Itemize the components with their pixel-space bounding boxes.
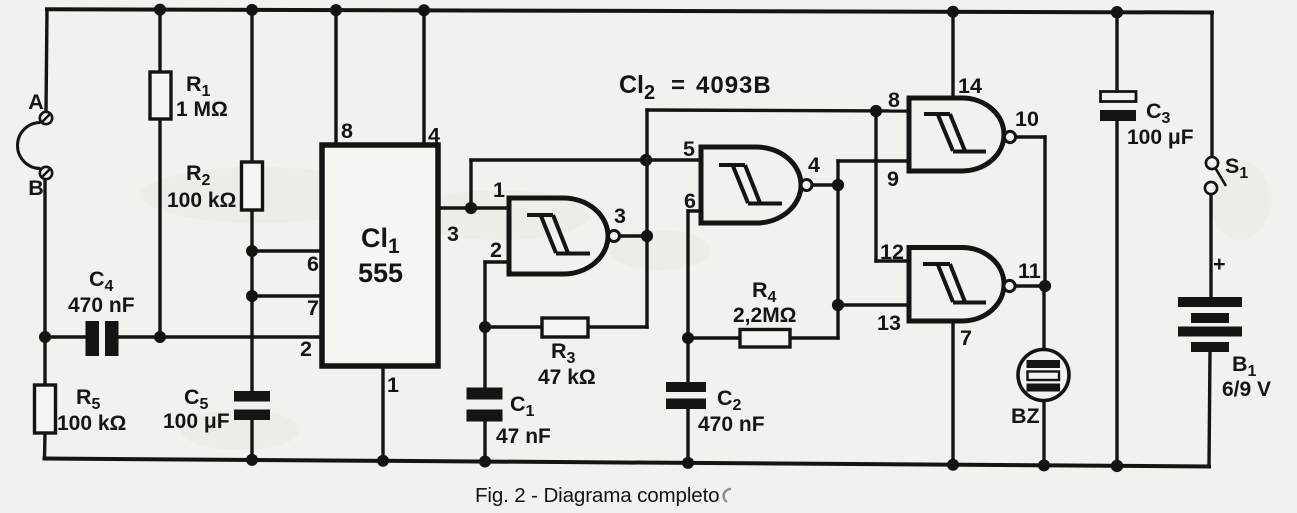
node output 11 (1039, 280, 1051, 292)
wire C2 bottom to rail (686, 409, 689, 463)
wire C3 column top (1115, 12, 1118, 91)
svg-text:14: 14 (958, 74, 982, 98)
gate CI2-c (pins 8,9,10) (909, 98, 1016, 171)
wire output10 drop to node 11 (1043, 137, 1046, 286)
wire battery to rail (1209, 352, 1210, 467)
svg-text:12: 12 (880, 240, 904, 264)
wire column x876 to gate4 input 12 (874, 111, 877, 261)
wire top rail (47, 9, 1212, 12)
wire gate3 input 9 (838, 159, 909, 162)
svg-text:11: 11 (1018, 259, 1041, 283)
capacitor C5 (234, 391, 270, 420)
svg-text:1: 1 (387, 373, 399, 397)
node C4 left (39, 331, 51, 343)
svg-text:7: 7 (960, 326, 972, 350)
resistor R3 (542, 318, 588, 337)
node input13 / R4 (832, 299, 844, 311)
resistor R2 (242, 162, 263, 210)
node input8 wire (870, 105, 882, 117)
wire sensor loop arc A-B (18, 123, 41, 169)
wire input6 column down to rail (686, 211, 689, 382)
svg-text:1 MΩ: 1 MΩ (176, 98, 228, 121)
node gate2 output 4 (832, 179, 844, 191)
wire gate4 input 12 horizontal (876, 259, 909, 262)
node top rail R1 (154, 4, 166, 16)
wire C5 bottom to rail (250, 420, 253, 460)
wire R1 column top (158, 10, 161, 72)
wire right column to S1 (1210, 13, 1213, 158)
node bottom rail C3 (1111, 460, 1123, 472)
wire gate2 output to node (812, 183, 838, 186)
svg-text:2: 2 (300, 337, 312, 361)
node top rail pin8 (330, 4, 342, 16)
svg-text:5: 5 (683, 137, 695, 161)
node pin3 (465, 202, 477, 214)
wire C3 column bottom (1115, 121, 1118, 466)
node top rail C3 (1111, 6, 1123, 18)
svg-text:9: 9 (887, 167, 899, 191)
wire gate4 pin 7 to rail (951, 321, 954, 465)
node R4 left / C2 (682, 332, 694, 344)
resistor R4 (740, 330, 790, 348)
svg-text:3: 3 (614, 204, 626, 228)
wire left drop from rail to terminal A (46, 9, 47, 112)
svg-text:7: 7 (307, 296, 319, 320)
wire gate4 input 13 (838, 303, 909, 306)
node pin7 tap (246, 290, 258, 302)
node gate2 input5 wire (640, 154, 652, 166)
wire node 11 down to buzzer (1042, 286, 1045, 350)
wire S1 to battery (1209, 194, 1212, 297)
wire vertical feedback column x647 (645, 110, 648, 327)
svg-text:8: 8 (341, 119, 353, 143)
node top rail R2 (246, 4, 258, 16)
svg-text:100 kΩ: 100 kΩ (57, 412, 126, 435)
gate CI2-b (pins 5,6,4) (701, 147, 812, 223)
svg-text:470 nF: 470 nF (68, 294, 135, 317)
wire 555 pin 3 out (438, 206, 471, 209)
wire gate3 pin 14 to rail (951, 12, 954, 98)
svg-text:+: + (1213, 252, 1226, 276)
capacitor C2 (666, 382, 706, 409)
wire column x838 output4 net (836, 161, 839, 338)
wire R3 left (485, 325, 542, 328)
node bottom rail buzzer (1038, 459, 1050, 471)
svg-text:6: 6 (307, 252, 319, 276)
wire horizontal to gate2 input 5 (471, 158, 701, 161)
svg-text:Fig. 2 - Diagrama completo: Fig. 2 - Diagrama completo (475, 484, 719, 507)
wire 555 pin 8 to rail (334, 10, 337, 145)
capacitor C4 (86, 321, 119, 356)
svg-text:2: 2 (490, 238, 502, 262)
node bottom rail C2 (682, 457, 694, 469)
svg-text:47 kΩ: 47 kΩ (538, 366, 596, 389)
svg-text:100 kΩ: 100 kΩ (167, 189, 236, 212)
svg-text:3: 3 (447, 222, 459, 246)
op-amp CI1 555 timer box (322, 145, 438, 366)
capacitor C1 (467, 388, 503, 422)
wire B to C4 node (43, 179, 46, 337)
svg-text:A: A (28, 90, 44, 114)
svg-text:47 nF: 47 nF (496, 425, 551, 448)
svg-text:10: 10 (1015, 107, 1039, 131)
wire gate4 output 11 (1015, 284, 1046, 287)
wire R4 right (790, 336, 838, 339)
node bottom rail C5 (246, 454, 258, 466)
node bottom rail C1 (479, 456, 491, 468)
wire R1 column bottom to pin2 wire (158, 119, 161, 337)
wire R5 top (43, 337, 46, 385)
wire R4 left (688, 336, 740, 339)
wire R3 right (588, 325, 647, 328)
wire 555 pin 4 to rail (422, 10, 425, 145)
svg-text:100 μF: 100 μF (163, 410, 230, 433)
wire 555 pin 7 (252, 294, 322, 297)
wire gate1 output to node (619, 234, 647, 237)
wire 555 pin 1 to rail (381, 366, 384, 461)
svg-text:470 nF: 470 nF (698, 413, 765, 436)
wire gate1 input 2 (485, 260, 509, 263)
svg-text:13: 13 (877, 311, 901, 335)
svg-text:100 μF: 100 μF (1127, 126, 1194, 149)
svg-text:6/9 V: 6/9 V (1222, 378, 1271, 401)
wire R2 column top (250, 10, 253, 162)
wire stub node 3 up (469, 160, 472, 208)
svg-text:8: 8 (888, 88, 900, 112)
node bottom rail pin1 (377, 455, 389, 467)
svg-text:555: 555 (358, 258, 403, 288)
wire R5 bottom to rail (43, 433, 47, 459)
buzzer BZ (1018, 350, 1069, 401)
terminal A (40, 112, 52, 124)
gate CI2-d (pins 12,13,11) (909, 248, 1015, 322)
svg-text:4: 4 (428, 124, 440, 148)
svg-text:BZ: BZ (1011, 404, 1040, 428)
node pin6 tap (246, 245, 258, 257)
resistor R1 (150, 72, 171, 119)
svg-text:B: B (28, 176, 44, 200)
node gate1 output (641, 230, 653, 242)
battery B1 (1178, 297, 1242, 352)
switch S1 (1205, 157, 1226, 194)
svg-text:4: 4 (808, 153, 820, 177)
node R3 left / C1 (479, 321, 491, 333)
wire R2 column down through pin6/pin7 taps to C5 (250, 210, 253, 391)
resistor R5 (35, 385, 56, 433)
svg-text:1: 1 (493, 178, 505, 202)
node bottom rail pin7 (947, 459, 959, 471)
wire C1 bottom to rail (483, 422, 486, 462)
wire 555 pin 6 (252, 249, 322, 252)
node top rail pin14 (947, 6, 959, 18)
wire gate1 input 1 (471, 206, 509, 209)
svg-text:2,2MΩ: 2,2MΩ (733, 304, 797, 327)
wire buzzer to rail (1042, 400, 1045, 466)
svg-text:6: 6 (684, 189, 696, 213)
node R1 bottom (154, 331, 166, 343)
wire top link to gate3 input 8 (647, 110, 909, 111)
wire gate3 output 10 (1016, 135, 1045, 138)
terminal B (40, 167, 52, 179)
wire node to C4 left plate (45, 335, 85, 338)
capacitor C3 (electrolytic) (1100, 92, 1136, 122)
wire gate2 input 6 (688, 209, 701, 212)
gate CI2-a (pins 1,2,3) (509, 198, 620, 274)
wire input2 column down to rail (483, 262, 486, 388)
node top rail pin4 (418, 4, 430, 16)
wire bottom rail (45, 459, 1210, 467)
wire C4 right plate to 555 pin 2 (120, 335, 322, 338)
